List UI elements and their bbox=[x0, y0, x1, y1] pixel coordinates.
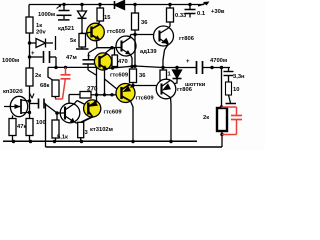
svg-text:47к: 47к bbox=[17, 124, 26, 130]
resistor 3 bbox=[78, 122, 84, 137]
node bbox=[28, 41, 31, 44]
resistor 15 bbox=[97, 8, 104, 21]
resistor 470 bbox=[114, 48, 116, 55]
capacitor 1000m electrolytic bbox=[30, 56, 43, 58]
resistor 100 bbox=[29, 101, 31, 119]
wire gate arrow bbox=[30, 93, 33, 98]
transistor T4 yellow bbox=[94, 53, 111, 70]
resistor 36 top bbox=[132, 13, 139, 30]
svg-text:+30в: +30в bbox=[211, 9, 225, 15]
transistor T6 yellow bbox=[84, 100, 101, 117]
svg-text:1000м: 1000м bbox=[38, 12, 55, 18]
capacitor gate bbox=[38, 99, 40, 109]
transistor T3 gt806 top bbox=[154, 26, 174, 46]
wire to bottom bus2 bbox=[45, 104, 47, 148]
svg-text:3,3н: 3,3н bbox=[233, 74, 245, 80]
wire T8 to T6 base diagonal bbox=[77, 101, 88, 107]
svg-text:гтс609: гтс609 bbox=[107, 29, 126, 35]
diode top rail D2 bbox=[114, 1, 116, 9]
svg-text:гтс609: гтс609 bbox=[104, 110, 123, 116]
svg-text:1к: 1к bbox=[36, 23, 42, 29]
wire diagonal to T5 bbox=[105, 79, 118, 90]
transistor T5 yellow bbox=[116, 84, 135, 103]
svg-text:270: 270 bbox=[87, 86, 98, 93]
resistor R 1k bbox=[26, 17, 33, 33]
svg-text:5к: 5к bbox=[70, 38, 76, 44]
wire W1 sloped bbox=[48, 66, 97, 68]
node bbox=[28, 55, 31, 58]
wire T7 base bbox=[133, 85, 157, 87]
red capacitor branch right bbox=[222, 107, 243, 135]
JFET T9 kp302 bbox=[10, 96, 27, 116]
svg-text:68к: 68к bbox=[40, 83, 49, 89]
wire W2 mid rail bbox=[108, 66, 196, 68]
svg-text:+: + bbox=[31, 51, 35, 57]
resistor R 2k bbox=[26, 68, 33, 86]
svg-text:+: + bbox=[186, 59, 190, 65]
svg-text:36: 36 bbox=[141, 20, 148, 26]
wire top rail bbox=[29, 4, 204, 6]
wire long mid vertical T4-T6 bbox=[96, 67, 98, 103]
svg-text:гтс609: гтс609 bbox=[136, 96, 155, 102]
resistor 270 horizontal bbox=[69, 94, 80, 96]
svg-text:20v: 20v bbox=[36, 30, 46, 36]
resistor 5k bbox=[79, 34, 86, 48]
svg-text:10: 10 bbox=[233, 87, 239, 93]
svg-text:15: 15 bbox=[104, 15, 111, 21]
svg-text:5,1к: 5,1к bbox=[57, 135, 68, 141]
power arrow +30v bbox=[198, 3, 208, 7]
capacitor top C1 bbox=[63, 5, 65, 11]
svg-text:гтс609: гтс609 bbox=[110, 73, 129, 79]
wire bbox=[30, 103, 39, 105]
red capacitor branch left bbox=[55, 67, 71, 99]
svg-text:кт3102м: кт3102м bbox=[90, 127, 113, 133]
svg-text:100: 100 bbox=[36, 120, 46, 126]
svg-text:ад139: ад139 bbox=[140, 49, 157, 55]
resistor 47k bbox=[12, 116, 14, 119]
capacitor 0.1 bbox=[189, 5, 191, 10]
diode schottky bbox=[176, 68, 178, 71]
resistor 5.1k bbox=[52, 120, 59, 138]
wire bbox=[29, 33, 31, 104]
transistor T2 ad139 bbox=[116, 36, 136, 56]
svg-text:470: 470 bbox=[118, 59, 128, 65]
svg-text:3: 3 bbox=[85, 130, 89, 136]
wire T1 emitter node bbox=[97, 41, 115, 48]
svg-text:0.1: 0.1 bbox=[197, 11, 206, 17]
wire left branch bbox=[28, 5, 30, 18]
wire drain node bbox=[28, 99, 31, 102]
svg-text:36: 36 bbox=[139, 73, 146, 79]
svg-text:47м: 47м bbox=[66, 55, 77, 61]
svg-text:0.33: 0.33 bbox=[175, 13, 187, 19]
svg-text:гт806: гт806 bbox=[179, 36, 195, 42]
resistor 68k bbox=[48, 67, 53, 80]
transistor T1 yellow bbox=[87, 23, 105, 41]
resistor 2k output thick bbox=[217, 108, 227, 131]
resistor 0.33 bbox=[167, 8, 174, 22]
svg-text:кп302б: кп302б bbox=[3, 88, 23, 95]
diode left bbox=[30, 42, 37, 44]
svg-text:кд521: кд521 bbox=[58, 26, 75, 32]
wire T4 emitter down bbox=[104, 70, 106, 95]
svg-text:шоттки: шоттки bbox=[185, 82, 206, 88]
svg-text:2к: 2к bbox=[203, 115, 209, 121]
wire node to 5.1k bbox=[56, 113, 58, 120]
svg-text:1000м: 1000м bbox=[2, 58, 19, 64]
wire to T3 bbox=[135, 34, 154, 36]
RC snubber chain bbox=[228, 68, 230, 72]
bus2 bottom bbox=[46, 146, 223, 148]
svg-text:1: 1 bbox=[168, 72, 172, 78]
svg-text:2к: 2к bbox=[35, 73, 41, 79]
node top rail junctions bbox=[62, 3, 191, 6]
bus1 bottom bbox=[3, 140, 197, 142]
diode kd521 bbox=[81, 5, 83, 12]
transistor T7 gt806 bottom bbox=[156, 79, 176, 99]
wire T8 collector to 270 bbox=[68, 95, 70, 104]
resistor 36 mid bbox=[130, 69, 137, 83]
resistor 1.3 bbox=[162, 68, 164, 71]
right column wire bbox=[221, 68, 223, 109]
wire bbox=[97, 94, 122, 96]
svg-text:4700м: 4700м bbox=[210, 58, 227, 64]
wire diagonal to T8 base node bbox=[45, 104, 58, 114]
transistor T8 kt3102 bbox=[60, 103, 80, 123]
